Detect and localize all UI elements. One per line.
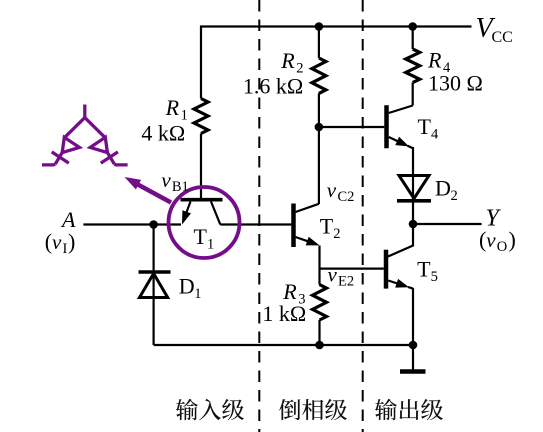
label T1 [194, 224, 215, 253]
wire input A [83, 223, 181, 225]
dashed stage boundary line 1 [258, 0, 260, 432]
label T2 [320, 214, 341, 243]
svg-text:1: 1 [207, 237, 214, 253]
wire T5 emitter to rail [412, 288, 414, 345]
svg-text:v: v [486, 228, 496, 252]
label vB1 [161, 168, 188, 195]
svg-text:T: T [417, 257, 431, 282]
label stage 输出级 (output stage) [375, 399, 443, 421]
label R4 [427, 48, 451, 77]
ground [400, 345, 426, 372]
node input junction [149, 220, 158, 229]
label R3 [282, 279, 305, 308]
wire T2 emitter to vE2 node [318, 246, 320, 269]
wire T4 emitter to D2 [412, 147, 414, 224]
node R2 bottom junction [315, 123, 324, 132]
label T5 [417, 257, 438, 286]
svg-text:E2: E2 [338, 274, 354, 290]
svg-text:2: 2 [451, 188, 458, 204]
annotation arrow (purple) [125, 177, 172, 203]
diode D2 [397, 176, 431, 201]
svg-text:O: O [497, 239, 507, 255]
wire vE2 to T5 base [320, 268, 384, 270]
svg-text:1.6 kΩ: 1.6 kΩ [243, 74, 303, 99]
svg-text:v: v [52, 230, 62, 254]
transistor T2 [294, 204, 320, 248]
svg-text:D: D [179, 274, 195, 299]
label T4 [418, 114, 440, 143]
svg-text:4: 4 [431, 127, 439, 143]
node R3 bottom junction [315, 341, 324, 350]
resistor R3 [313, 269, 327, 345]
wire T2 collector to R2 [318, 127, 320, 204]
svg-text:2: 2 [333, 226, 340, 242]
dashed stage boundary line 2 [362, 0, 364, 432]
annotation multi-emitter diode equivalent sketch (purple) [42, 105, 128, 165]
node T5 emitter junction [409, 341, 418, 350]
svg-text:R: R [165, 95, 180, 120]
label D1 [179, 274, 202, 303]
label R2 [280, 48, 303, 77]
label vC2 [327, 178, 355, 205]
diode D1 [139, 225, 171, 346]
label (vI) [45, 229, 76, 257]
wire output Y [413, 223, 482, 225]
wire R1 to T1 base [200, 134, 202, 200]
svg-text:): ) [68, 229, 75, 254]
svg-text:4 kΩ: 4 kΩ [141, 121, 185, 146]
svg-text:C2: C2 [338, 189, 355, 205]
node Y output junction [409, 220, 418, 229]
svg-text:v: v [328, 263, 338, 287]
svg-text:CC: CC [492, 29, 513, 46]
svg-text:D: D [435, 176, 451, 201]
node R4 top junction [408, 22, 417, 31]
transistor T4 [387, 105, 414, 148]
resistor R4 [406, 27, 420, 106]
annotation circle around T1 (purple) [169, 187, 240, 258]
svg-text:T: T [418, 114, 432, 139]
transistor T5 [386, 250, 413, 289]
svg-text:1 kΩ: 1 kΩ [262, 301, 306, 326]
wire T1 collector to T2 base [220, 223, 291, 225]
wire bottom rail [154, 344, 413, 346]
label vE2 [328, 263, 355, 290]
svg-text:(: ( [45, 229, 52, 254]
svg-text:B1: B1 [172, 179, 189, 195]
label R1 [165, 95, 188, 124]
label stage 输入级 (input stage) [176, 399, 244, 421]
label (vO) [479, 227, 516, 255]
svg-text:I: I [63, 241, 68, 257]
label stage 倒相级 (phase splitter stage) [279, 399, 347, 420]
svg-text:1: 1 [194, 286, 201, 302]
svg-text:T: T [320, 214, 334, 239]
wire R2 junction to T4 base [319, 126, 384, 128]
label D2 [435, 176, 458, 205]
wire Y node to T5 collector [388, 224, 413, 257]
wire VCC rail [201, 27, 472, 99]
svg-text:R: R [427, 48, 442, 73]
resistor R1 [194, 99, 208, 134]
svg-text:): ) [509, 227, 516, 252]
svg-text:v: v [327, 178, 337, 202]
node R2 top junction [315, 22, 324, 31]
svg-text:5: 5 [431, 269, 438, 285]
resistor R2 [312, 27, 326, 128]
svg-text:R: R [280, 48, 295, 73]
svg-text:v: v [161, 168, 171, 192]
label VCC [476, 13, 513, 46]
svg-text:T: T [194, 224, 208, 249]
svg-text:130 Ω: 130 Ω [428, 71, 483, 96]
svg-text:(: ( [479, 227, 486, 252]
transistor T1 [181, 200, 223, 225]
